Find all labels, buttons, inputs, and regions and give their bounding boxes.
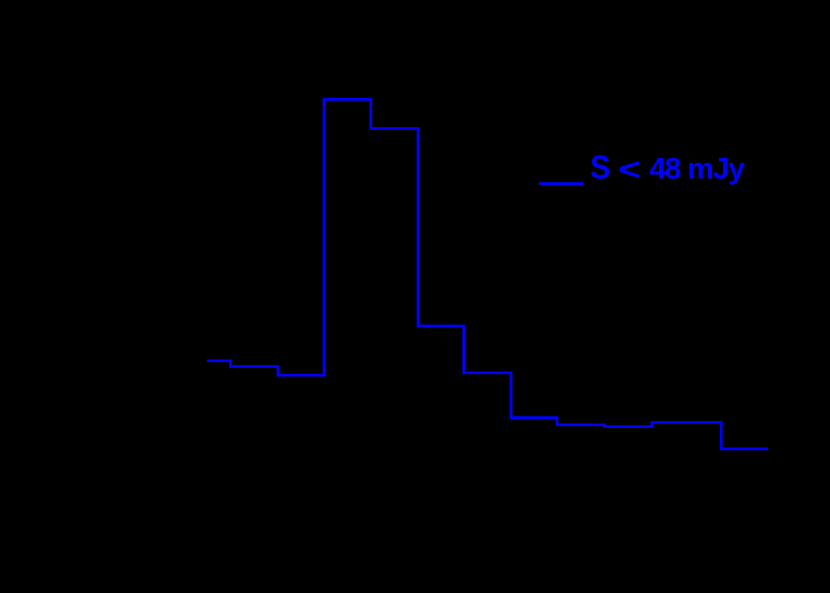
svg-text:<: < bbox=[618, 152, 640, 187]
histogram step curve (blue) bbox=[207, 99, 768, 449]
svg-text:48 mJy: 48 mJy bbox=[649, 152, 745, 185]
legend text: S < 48 mJy bbox=[590, 148, 745, 187]
svg-text:S: S bbox=[590, 148, 610, 186]
legend line bbox=[539, 182, 583, 185]
